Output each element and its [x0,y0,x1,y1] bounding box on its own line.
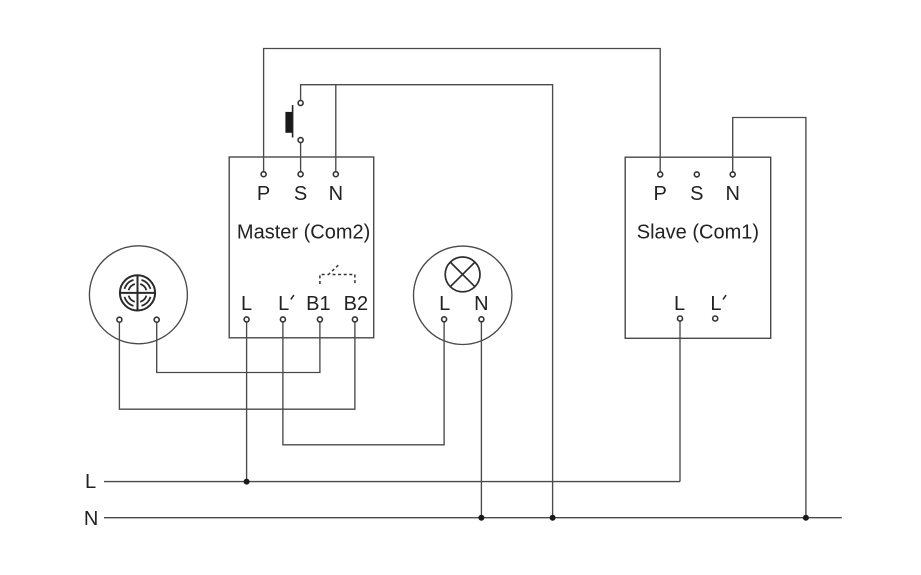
svg-text:N: N [84,508,98,530]
N bus line [104,517,842,519]
junction dot N bus / x551 drop [550,515,556,521]
wire push-button bottom to Master S [300,140,302,174]
sensor terminal right [154,317,159,322]
svg-text:N: N [474,293,488,315]
lamp terminal N [479,317,484,322]
Master terminal N [333,172,338,177]
svg-text:L: L [674,293,685,315]
wire Master P to Slave P (top link) [264,49,661,175]
svg-text:L: L [241,293,252,315]
junction dot L bus / Master L [244,479,250,485]
junction dot N bus / right drop [803,515,809,521]
Slave terminal N [730,172,735,177]
wire Master N up to link [335,85,337,175]
Slave box [625,157,771,338]
svg-text:Master (Com2): Master (Com2) [237,221,370,243]
lamp E1 outer circle [414,246,512,344]
wire Slave N to right-side drop [733,118,806,518]
Slave terminal P [658,172,663,177]
svg-text:Slave (Com1): Slave (Com1) [637,221,759,243]
Slave terminal L [678,316,683,321]
Master terminal B2 [352,317,357,322]
push button S1 [285,101,303,143]
svg-text:S: S [294,183,307,205]
lamp terminal L [442,317,447,322]
svg-text:S: S [690,183,703,205]
Slave terminal S [694,172,699,177]
sensor terminal left [117,317,122,322]
sensor P1 (motion detector) outer circle [89,246,187,344]
svg-text:N: N [725,183,739,205]
svg-text:L: L [85,471,96,493]
Master terminal L' [280,317,285,322]
sensor symbol [120,275,155,310]
svg-text:B2: B2 [344,293,368,315]
wire push-button top to N bus vertical at x551.5 [301,85,553,518]
Master terminal S [298,172,303,177]
svg-text:P: P [257,183,270,205]
Master terminal B1 [317,317,322,322]
junction dot N bus / lamp N [478,515,484,521]
svg-text:L: L [710,293,721,315]
Master terminal P [261,172,266,177]
svg-text:N: N [329,183,343,205]
svg-text:L: L [278,293,289,315]
lamp symbol (circle with X) [445,257,480,292]
wire Slave L down to L bus [679,319,681,482]
svg-text:B1: B1 [306,293,330,315]
svg-text:L: L [439,293,450,315]
wire Master L down to L bus [246,319,248,481]
relay contact (dashed) between B1 and B2 [320,264,355,285]
Slave terminal L' [713,316,718,321]
wire sensor right terminal to Master B1 [157,319,320,372]
wire Master L' to lamp L [283,319,444,445]
Master terminal L [244,317,249,322]
wire lamp N down to N bus [480,319,482,517]
wire sensor left terminal to Master B2 [119,319,355,409]
Master box [229,157,374,338]
svg-text:P: P [654,183,667,205]
L bus line [104,481,680,483]
